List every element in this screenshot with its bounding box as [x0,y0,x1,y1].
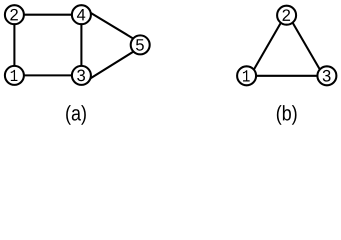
label (b) [277,105,297,125]
wire edge 2-1 [13,15,15,76]
wire edge 2-4 [14,14,81,16]
wire edge 1-3 [14,74,81,76]
label (a) [66,105,86,125]
node vertex 3 [317,66,336,85]
wire edge 4-3 [80,15,82,76]
node vertex 2 [277,6,296,25]
node vertex 2 [5,5,24,24]
wire edge 2-1 [252,18,284,73]
node vertex 1 [237,66,256,85]
wire edge 3-5 [88,50,136,80]
node vertex 5 [131,35,150,54]
wire edge 1-3 [247,75,327,77]
node vertex 3 [72,66,91,85]
node vertex 4 [72,5,91,24]
wire edge 4-5 [88,11,136,40]
wire edge 2-3 [290,18,322,73]
node vertex 1 [5,66,24,85]
